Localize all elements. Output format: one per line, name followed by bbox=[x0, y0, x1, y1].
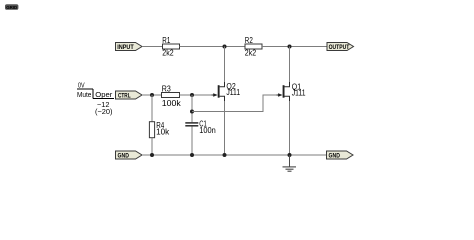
junction Q1 drain / output rail bbox=[288, 45, 292, 49]
wire C1 bottom bbox=[191, 127, 193, 156]
svg-text:2k2: 2k2 bbox=[162, 49, 174, 58]
wire R3 to Q2 gate bbox=[180, 94, 213, 96]
annotation divider lines Mute/Oper bbox=[77, 89, 114, 99]
svg-text:GRID: GRID bbox=[6, 5, 18, 10]
wire CTRL to R3 bbox=[142, 94, 162, 96]
svg-text:100k: 100k bbox=[162, 99, 182, 108]
junction Q2 source to rail bbox=[223, 153, 227, 157]
svg-text:R2: R2 bbox=[245, 36, 253, 45]
svg-text:Mute: Mute bbox=[77, 90, 91, 99]
transistor Q1 (JFET J111) bbox=[277, 82, 290, 101]
junction R4 to rail bbox=[150, 153, 154, 157]
svg-text:R3: R3 bbox=[162, 85, 171, 94]
svg-text:0V: 0V bbox=[78, 80, 85, 89]
wire Q2 drain up bbox=[224, 47, 226, 83]
svg-text:OUTPUT: OUTPUT bbox=[329, 45, 350, 51]
svg-text:GND: GND bbox=[329, 153, 341, 159]
svg-text:J111: J111 bbox=[226, 88, 240, 97]
wire R1 to R2 bbox=[180, 46, 246, 48]
wire to Q1 gate bbox=[192, 95, 277, 112]
wire Q1 source down bbox=[289, 101, 291, 155]
junction C1 branch bbox=[190, 93, 194, 97]
resistor R1 bbox=[163, 44, 180, 49]
transistor Q2 (JFET J111) bbox=[212, 82, 225, 101]
svg-text:(−20): (−20) bbox=[95, 107, 113, 116]
svg-text:2k2: 2k2 bbox=[245, 49, 257, 58]
junction R4 branch bbox=[150, 93, 154, 97]
wire C1 top bbox=[191, 95, 193, 122]
svg-text:R1: R1 bbox=[162, 36, 170, 45]
wire R2 to OUTPUT bbox=[262, 46, 327, 48]
net tag GND left bbox=[116, 151, 143, 159]
svg-text:Oper: Oper bbox=[95, 90, 112, 99]
wire R4 bottom bbox=[151, 138, 153, 155]
ground bbox=[283, 155, 297, 171]
wire Q2 source down bbox=[224, 101, 226, 155]
wire Q1 drain up bbox=[289, 47, 291, 83]
svg-text:J111: J111 bbox=[292, 89, 306, 98]
grid badge bbox=[5, 4, 18, 10]
svg-text:100n: 100n bbox=[199, 126, 216, 135]
svg-text:GND: GND bbox=[118, 153, 130, 159]
wire ground rail bbox=[142, 154, 327, 156]
net tag OUTPUT bbox=[327, 43, 354, 51]
resistor R2 bbox=[245, 44, 262, 49]
junction Q1 source / ground symbol bbox=[288, 153, 292, 157]
svg-text:INPUT: INPUT bbox=[117, 45, 134, 51]
wire R4 top bbox=[151, 95, 153, 122]
resistor R4 bbox=[149, 122, 154, 138]
net tag INPUT bbox=[116, 43, 143, 51]
net tag CTRL bbox=[116, 91, 143, 99]
junction C1 to rail bbox=[190, 153, 194, 157]
net tag GND right bbox=[327, 151, 354, 159]
svg-text:CTRL: CTRL bbox=[118, 93, 131, 99]
resistor R3 bbox=[162, 93, 180, 98]
svg-text:10k: 10k bbox=[156, 128, 170, 137]
junction Q2 drain / input rail bbox=[223, 45, 227, 49]
wire INPUT to R1 bbox=[142, 46, 163, 48]
junction Q1 gate branch bbox=[190, 110, 194, 114]
capacitor C1 bbox=[185, 123, 198, 126]
